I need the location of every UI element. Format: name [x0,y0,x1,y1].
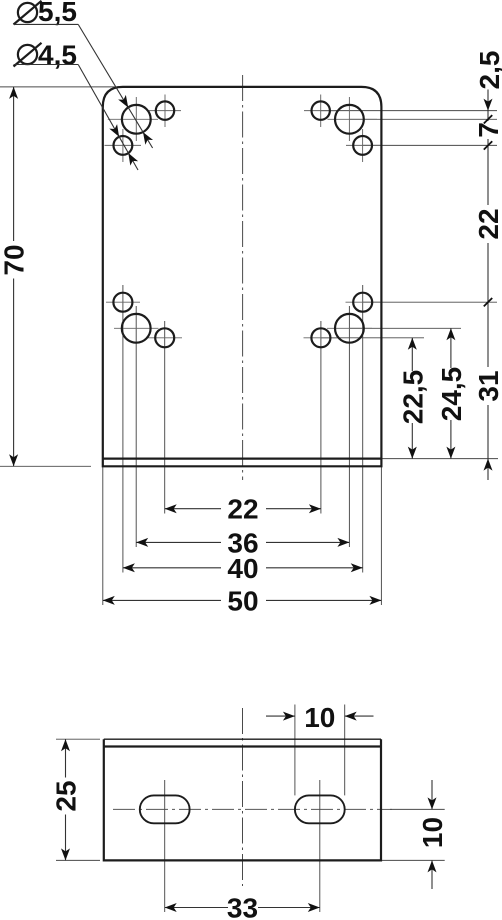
svg-text:2,5: 2,5 [474,51,502,90]
svg-text:25: 25 [51,780,82,811]
svg-text:5,5: 5,5 [38,0,77,27]
svg-text:4,5: 4,5 [38,39,77,70]
svg-text:31: 31 [473,370,502,401]
svg-text:7: 7 [473,122,502,138]
svg-text:33: 33 [227,893,258,920]
svg-text:24,5: 24,5 [436,367,467,422]
svg-text:10: 10 [304,702,335,733]
svg-text:22: 22 [473,208,502,239]
svg-text:22,5: 22,5 [397,370,428,425]
svg-text:50: 50 [227,585,258,616]
svg-text:70: 70 [0,244,30,275]
svg-text:10: 10 [417,817,448,848]
svg-text:22: 22 [227,494,258,525]
svg-text:40: 40 [227,553,258,584]
